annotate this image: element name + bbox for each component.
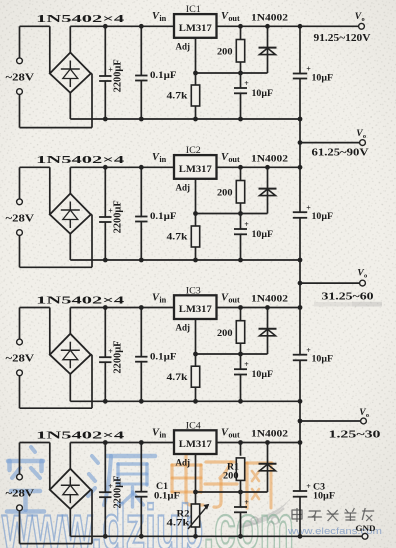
svg-text:2200µF: 2200µF [113, 59, 124, 92]
svg-text:R2: R2 [177, 509, 191, 519]
svg-text:R1: R1 [227, 461, 240, 471]
svg-text:2200µF: 2200µF [113, 200, 124, 233]
svg-text:1N4002: 1N4002 [251, 295, 288, 305]
svg-text:Adj: Adj [176, 324, 191, 334]
svg-text:10µF: 10µF [252, 370, 274, 380]
svg-text:+: + [306, 65, 311, 74]
svg-text:LM317: LM317 [179, 164, 212, 175]
svg-text:200: 200 [223, 472, 239, 482]
svg-text:10µF: 10µF [312, 212, 334, 222]
svg-text:~28V: ~28V [6, 213, 35, 224]
svg-text:+: + [244, 79, 249, 88]
svg-text:1N4002: 1N4002 [251, 155, 288, 165]
svg-text:+: + [244, 360, 249, 369]
svg-text:4.7k: 4.7k [167, 373, 189, 383]
svg-text:10µF: 10µF [252, 230, 274, 240]
svg-text:91.25~120V: 91.25~120V [314, 33, 372, 44]
svg-text:GND: GND [356, 523, 376, 533]
svg-text:1N4002: 1N4002 [251, 14, 288, 24]
svg-text:2200µF: 2200µF [113, 341, 124, 374]
svg-text:Adj: Adj [176, 43, 191, 53]
svg-text:1N5402×4: 1N5402×4 [36, 154, 125, 166]
svg-text:IC3: IC3 [186, 285, 202, 295]
svg-text:4.7k: 4.7k [167, 519, 191, 529]
svg-text:IC4: IC4 [186, 420, 202, 430]
svg-text:10µF: 10µF [313, 491, 335, 501]
svg-text:0.1µF: 0.1µF [150, 352, 177, 362]
svg-text:+: + [306, 203, 311, 212]
svg-text:61.25~90V: 61.25~90V [312, 148, 370, 159]
svg-text:Adj: Adj [176, 459, 191, 469]
svg-text:IC1: IC1 [186, 4, 201, 14]
svg-text:0.1µF: 0.1µF [154, 492, 180, 502]
svg-text:+: + [244, 498, 249, 507]
svg-text:C3: C3 [313, 481, 326, 491]
svg-text:1N4002: 1N4002 [251, 430, 288, 440]
svg-text:IC2: IC2 [186, 145, 201, 155]
svg-text:2200µF: 2200µF [113, 476, 124, 509]
svg-text:10µF: 10µF [312, 355, 334, 365]
svg-text:LM317: LM317 [179, 304, 212, 315]
svg-text:+: + [306, 482, 311, 491]
svg-text:0.1µF: 0.1µF [150, 71, 177, 81]
svg-text:1N5402×4: 1N5402×4 [36, 294, 125, 306]
svg-text:200: 200 [217, 48, 233, 58]
svg-text:200: 200 [217, 329, 233, 339]
svg-text:LM317: LM317 [179, 439, 212, 450]
svg-text:10µF: 10µF [312, 74, 334, 84]
svg-text:+: + [244, 220, 249, 229]
svg-text:1N5402×4: 1N5402×4 [36, 13, 125, 25]
svg-text:4.7k: 4.7k [167, 92, 189, 102]
svg-text:Adj: Adj [176, 184, 191, 194]
svg-text:31.25~60: 31.25~60 [322, 292, 374, 303]
svg-text:~28V: ~28V [6, 489, 35, 500]
svg-text:1N5402×4: 1N5402×4 [36, 429, 125, 441]
svg-text:~28V: ~28V [6, 354, 35, 365]
svg-text:1.25~30: 1.25~30 [329, 430, 381, 441]
svg-text:C1: C1 [156, 481, 169, 491]
svg-text:+: + [306, 346, 311, 355]
svg-text:www.dziub.com: www.dziub.com [1, 492, 294, 548]
svg-text:~28V: ~28V [6, 72, 35, 83]
svg-text:200: 200 [217, 189, 233, 199]
svg-text:0.1µF: 0.1µF [150, 212, 177, 222]
svg-text:LM317: LM317 [179, 23, 212, 34]
svg-text:4.7k: 4.7k [167, 233, 189, 243]
svg-text:10µF: 10µF [252, 89, 274, 99]
